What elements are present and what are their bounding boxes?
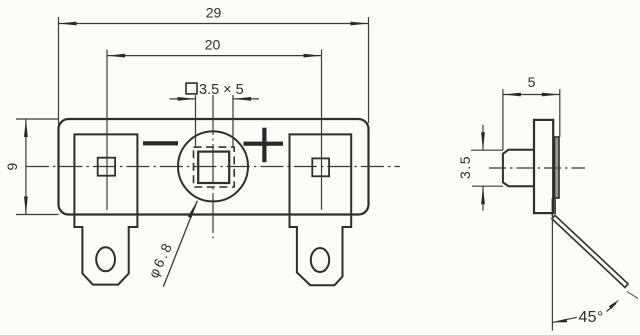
side view shaft (bushing) with chamfered end xyxy=(503,150,534,187)
svg-text:29: 29 xyxy=(206,5,222,21)
3.5 extension line left xyxy=(195,95,197,147)
dimension line 29 xyxy=(59,23,369,25)
svg-text:20: 20 xyxy=(205,37,221,53)
right terminal center line / 20 extension line xyxy=(321,50,323,211)
square symbol of 3.5x5 label xyxy=(186,83,197,94)
bent terminal strip at 45 degrees xyxy=(552,215,628,287)
45 degree arrow to strip (pointing up-right) xyxy=(607,304,617,312)
vertical center line through circle xyxy=(212,95,214,238)
3.5 extension line right xyxy=(232,95,234,147)
dimension 9 extension line bottom xyxy=(16,214,59,216)
body outline (front view rounded rectangle) xyxy=(59,119,369,215)
arrow 9 top xyxy=(24,119,28,137)
dimension line 9 xyxy=(25,119,27,215)
phi 6.8 leader line xyxy=(163,201,197,287)
vertical reference line for 45 degree angle xyxy=(551,215,553,331)
left terminal square hole xyxy=(98,158,115,176)
dimension 29 extension line left xyxy=(58,17,60,125)
dimension 5 extension line right xyxy=(559,89,561,137)
dimension 9 extension line top xyxy=(16,118,59,120)
left tab oval hole xyxy=(96,247,115,271)
3.5 arrow top (pointing down) xyxy=(482,125,484,150)
arrow 9 bottom xyxy=(24,197,28,215)
arrow 5 left xyxy=(503,93,521,97)
side view mounting plate (thin) xyxy=(555,137,560,198)
right tab oval hole xyxy=(311,248,329,272)
dimension 29 extension line right xyxy=(368,17,370,123)
left terminal center line / 20 extension line xyxy=(106,50,108,211)
dimension 5 extension line left xyxy=(502,89,504,150)
3.5 arrow bottom (pointing up) xyxy=(482,186,484,210)
right terminal square hole xyxy=(312,158,329,176)
45 degree arrow to vertical line (pointing left) xyxy=(553,317,577,322)
horizontal center line (front view) xyxy=(26,166,400,168)
3.5 arrow left (pointing right) xyxy=(170,98,196,100)
arrow 29 right xyxy=(351,22,369,26)
svg-text:3.5 × 5: 3.5 × 5 xyxy=(199,82,244,98)
svg-text:5: 5 xyxy=(528,74,536,90)
right terminal and tab outline xyxy=(290,134,352,285)
dimension line 5 xyxy=(503,94,560,96)
dimension 3.5 extension line top (side view) xyxy=(471,149,503,151)
side view horizontal center line xyxy=(489,167,585,169)
arrow 20 right xyxy=(304,54,322,58)
phi 6.8 leader arrowhead xyxy=(188,201,198,218)
center square hidden outline (dashed) xyxy=(194,147,235,187)
side view main block xyxy=(534,120,553,213)
center circular boss phi 6.8 xyxy=(178,131,248,201)
center square hole 3.5x5 (solid) xyxy=(198,152,229,183)
plus polarity mark xyxy=(244,142,284,146)
dimension line 20 xyxy=(107,55,322,57)
leader continuation past strip xyxy=(627,292,638,299)
3.5 arrow right (pointing left) xyxy=(233,98,259,100)
arrow 5 right xyxy=(542,93,560,97)
arrow 29 left xyxy=(59,22,77,26)
left terminal and tab outline xyxy=(74,134,137,284)
side view plate lower stub xyxy=(551,198,553,216)
svg-text:9: 9 xyxy=(4,162,20,170)
dimension 3.5 extension line bottom (side view) xyxy=(472,185,503,187)
arrow 20 left xyxy=(107,54,125,58)
minus polarity mark xyxy=(143,141,178,145)
svg-text:45°: 45° xyxy=(578,309,603,326)
svg-text:3.5: 3.5 xyxy=(457,155,473,179)
